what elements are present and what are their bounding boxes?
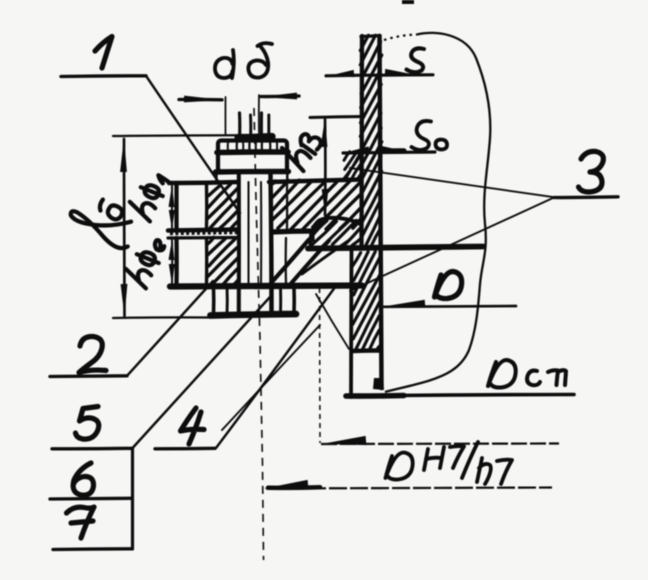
- stud end vertical c: [260, 113, 263, 139]
- washer side left: [215, 172, 218, 183]
- dim hf1 line: [171, 186, 173, 228]
- label db: [215, 43, 272, 78]
- stud top extension right: [258, 95, 260, 133]
- callout 5 leader: [133, 297, 270, 448]
- hub mid joint speckle: [170, 233, 238, 234]
- stud top extension left: [224, 97, 226, 135]
- table vertical line: [131, 449, 134, 550]
- dim DH7 line upper: [321, 442, 559, 445]
- hub hatch strip upper: [207, 184, 238, 230]
- nut facet b: [248, 141, 250, 152]
- stud shank right edge: [271, 172, 272, 312]
- dim DH7 thick join: [268, 485, 320, 490]
- hub hatch strip lower: [208, 237, 238, 285]
- stray thin diagonal near spigot: [316, 294, 349, 349]
- stud shank left edge: [237, 172, 241, 312]
- digit 2: [79, 336, 106, 372]
- dim db line right: [261, 94, 299, 98]
- dim DH7 arrow lower: [264, 480, 308, 489]
- callout 3 shelf: [554, 195, 618, 199]
- nut facet e: [227, 141, 229, 152]
- callout 5 underline: [52, 447, 132, 451]
- dim lb arrow down: [121, 284, 128, 317]
- wall plate top edge: [361, 36, 380, 37]
- digit 6: [73, 463, 93, 495]
- stud thread line left: [247, 182, 249, 284]
- collar right edge: [292, 286, 296, 315]
- dim db label: [0, 0, 1, 1]
- break line dotted start: [384, 35, 417, 41]
- label Dsp: [488, 360, 566, 388]
- dim DH7 ext dashed: [319, 288, 322, 443]
- collar bottom face: [211, 314, 297, 316]
- hub divider lower: [205, 238, 209, 285]
- label hfe: [122, 233, 167, 289]
- wall plate left face: [359, 36, 364, 246]
- spigot right edge: [349, 250, 353, 397]
- dim hfe line: [171, 240, 173, 284]
- stud end vertical a: [238, 113, 241, 139]
- callout 2 leader: [127, 281, 213, 376]
- weld bead outline: [310, 218, 361, 246]
- wall plate right face: [380, 36, 382, 388]
- nut outline: [218, 141, 287, 172]
- dim DH7 line lower: [266, 488, 552, 489]
- dim S arrow right: [385, 69, 411, 76]
- dim D arrow: [384, 300, 426, 308]
- flange bore divider upper: [286, 183, 288, 229]
- collar inner line a: [226, 287, 229, 314]
- dim db line left: [179, 98, 222, 102]
- digit 5: [76, 407, 99, 440]
- nut facet g: [255, 141, 257, 152]
- dim hf1 arrow down: [169, 210, 175, 230]
- label DH7h7: [386, 442, 513, 484]
- break line wavy: [385, 33, 490, 392]
- dim hv arrow down: [322, 189, 329, 216]
- upper weld fillet edge: [345, 152, 361, 180]
- hub divider upper: [205, 185, 209, 228]
- dim hfe arrow up: [169, 240, 175, 261]
- dim lb line: [123, 139, 126, 316]
- dim DH7 arrow upper: [322, 436, 367, 445]
- callout 4 leader: [216, 285, 337, 449]
- callout 4 underline: [155, 447, 215, 451]
- digit 7: [67, 507, 95, 538]
- label hv: [277, 125, 323, 172]
- digit 4: [181, 408, 205, 444]
- dim lb arrow up: [120, 138, 127, 173]
- spigot bottom end face / wall bottom line: [346, 395, 574, 397]
- flange upper hatching: [271, 180, 361, 230]
- nut facet c: [261, 141, 263, 152]
- wall hole bottom edge: [353, 348, 381, 353]
- dim hv line: [324, 119, 327, 215]
- dim lb bottom ext: [113, 316, 211, 319]
- label D: [435, 271, 462, 298]
- hub outer block lower: [174, 238, 178, 285]
- callout 3 leader lower: [350, 198, 554, 292]
- wall hatching upper: [360, 35, 382, 245]
- flange-wall interface line: [308, 247, 483, 249]
- table line under 7: [53, 547, 132, 551]
- washer side right: [286, 172, 289, 183]
- table line under 6: [50, 497, 132, 501]
- collar left edge: [212, 286, 216, 315]
- spigot bottom thick part: [346, 393, 404, 399]
- dim hv arrow up: [321, 118, 328, 147]
- callout 1 underline: [61, 74, 146, 78]
- dim S line: [326, 75, 433, 76]
- callout 2 underline: [50, 374, 127, 378]
- dim lb top ext: [113, 134, 238, 137]
- hub mid joint lower line: [168, 236, 239, 240]
- dim hfe arrow down: [169, 264, 175, 285]
- flange mid step: [311, 231, 315, 240]
- hub bottom face line: [170, 286, 362, 287]
- dim S0 thick join: [381, 148, 404, 154]
- collar inner line b: [279, 287, 282, 314]
- upper weld hatching: [343, 152, 362, 181]
- hub mid joint upper line: [168, 230, 239, 231]
- stud end vertical d: [267, 115, 270, 139]
- label lb: [65, 191, 139, 250]
- callout 1 leader: [146, 76, 240, 213]
- dim D line: [384, 305, 516, 308]
- dim S arrow left: [328, 70, 354, 77]
- dim hf1 arrow up: [169, 185, 175, 207]
- washer line: [216, 169, 289, 175]
- dim S0 arrow right: [381, 146, 406, 153]
- scan mark top: [402, 0, 414, 4]
- stud centerline: [254, 108, 264, 560]
- dim S0 arrow left: [343, 146, 369, 153]
- nut mid line: [217, 149, 288, 155]
- stud end vertical b: [249, 115, 252, 139]
- weld bead hatching: [312, 220, 362, 246]
- callout 4 leader second: [222, 325, 320, 430]
- wall hatching at hole: [352, 252, 380, 350]
- dim db arrow right: [260, 93, 297, 100]
- callout 3 leader upper: [350, 168, 554, 197]
- digit 3: [579, 151, 604, 192]
- wall bottom corner: [373, 378, 384, 390]
- digit 1: [95, 37, 112, 69]
- dim hv ext line: [310, 117, 363, 118]
- hub top face line: [169, 182, 239, 183]
- nut facet h: [276, 141, 278, 152]
- nut facet a: [236, 141, 239, 152]
- nut facet f: [242, 141, 244, 152]
- flange sparse hatch 1: [271, 240, 309, 284]
- flange sparse hatch 2: [291, 241, 329, 284]
- stud top end face: [238, 137, 272, 138]
- label S0: [412, 121, 448, 150]
- label S: [407, 48, 425, 72]
- stud thread line right: [260, 182, 262, 284]
- flange bore divider lower: [285, 238, 288, 284]
- flange mid line right: [272, 231, 313, 232]
- flange top face line: [269, 180, 361, 183]
- dim S0 line: [343, 152, 435, 153]
- nut facet d: [269, 141, 272, 152]
- dim db arrow left: [184, 96, 223, 103]
- hub outer block upper: [174, 184, 178, 228]
- label hf1: [126, 169, 169, 222]
- flange sparse hatch 3: [302, 241, 348, 274]
